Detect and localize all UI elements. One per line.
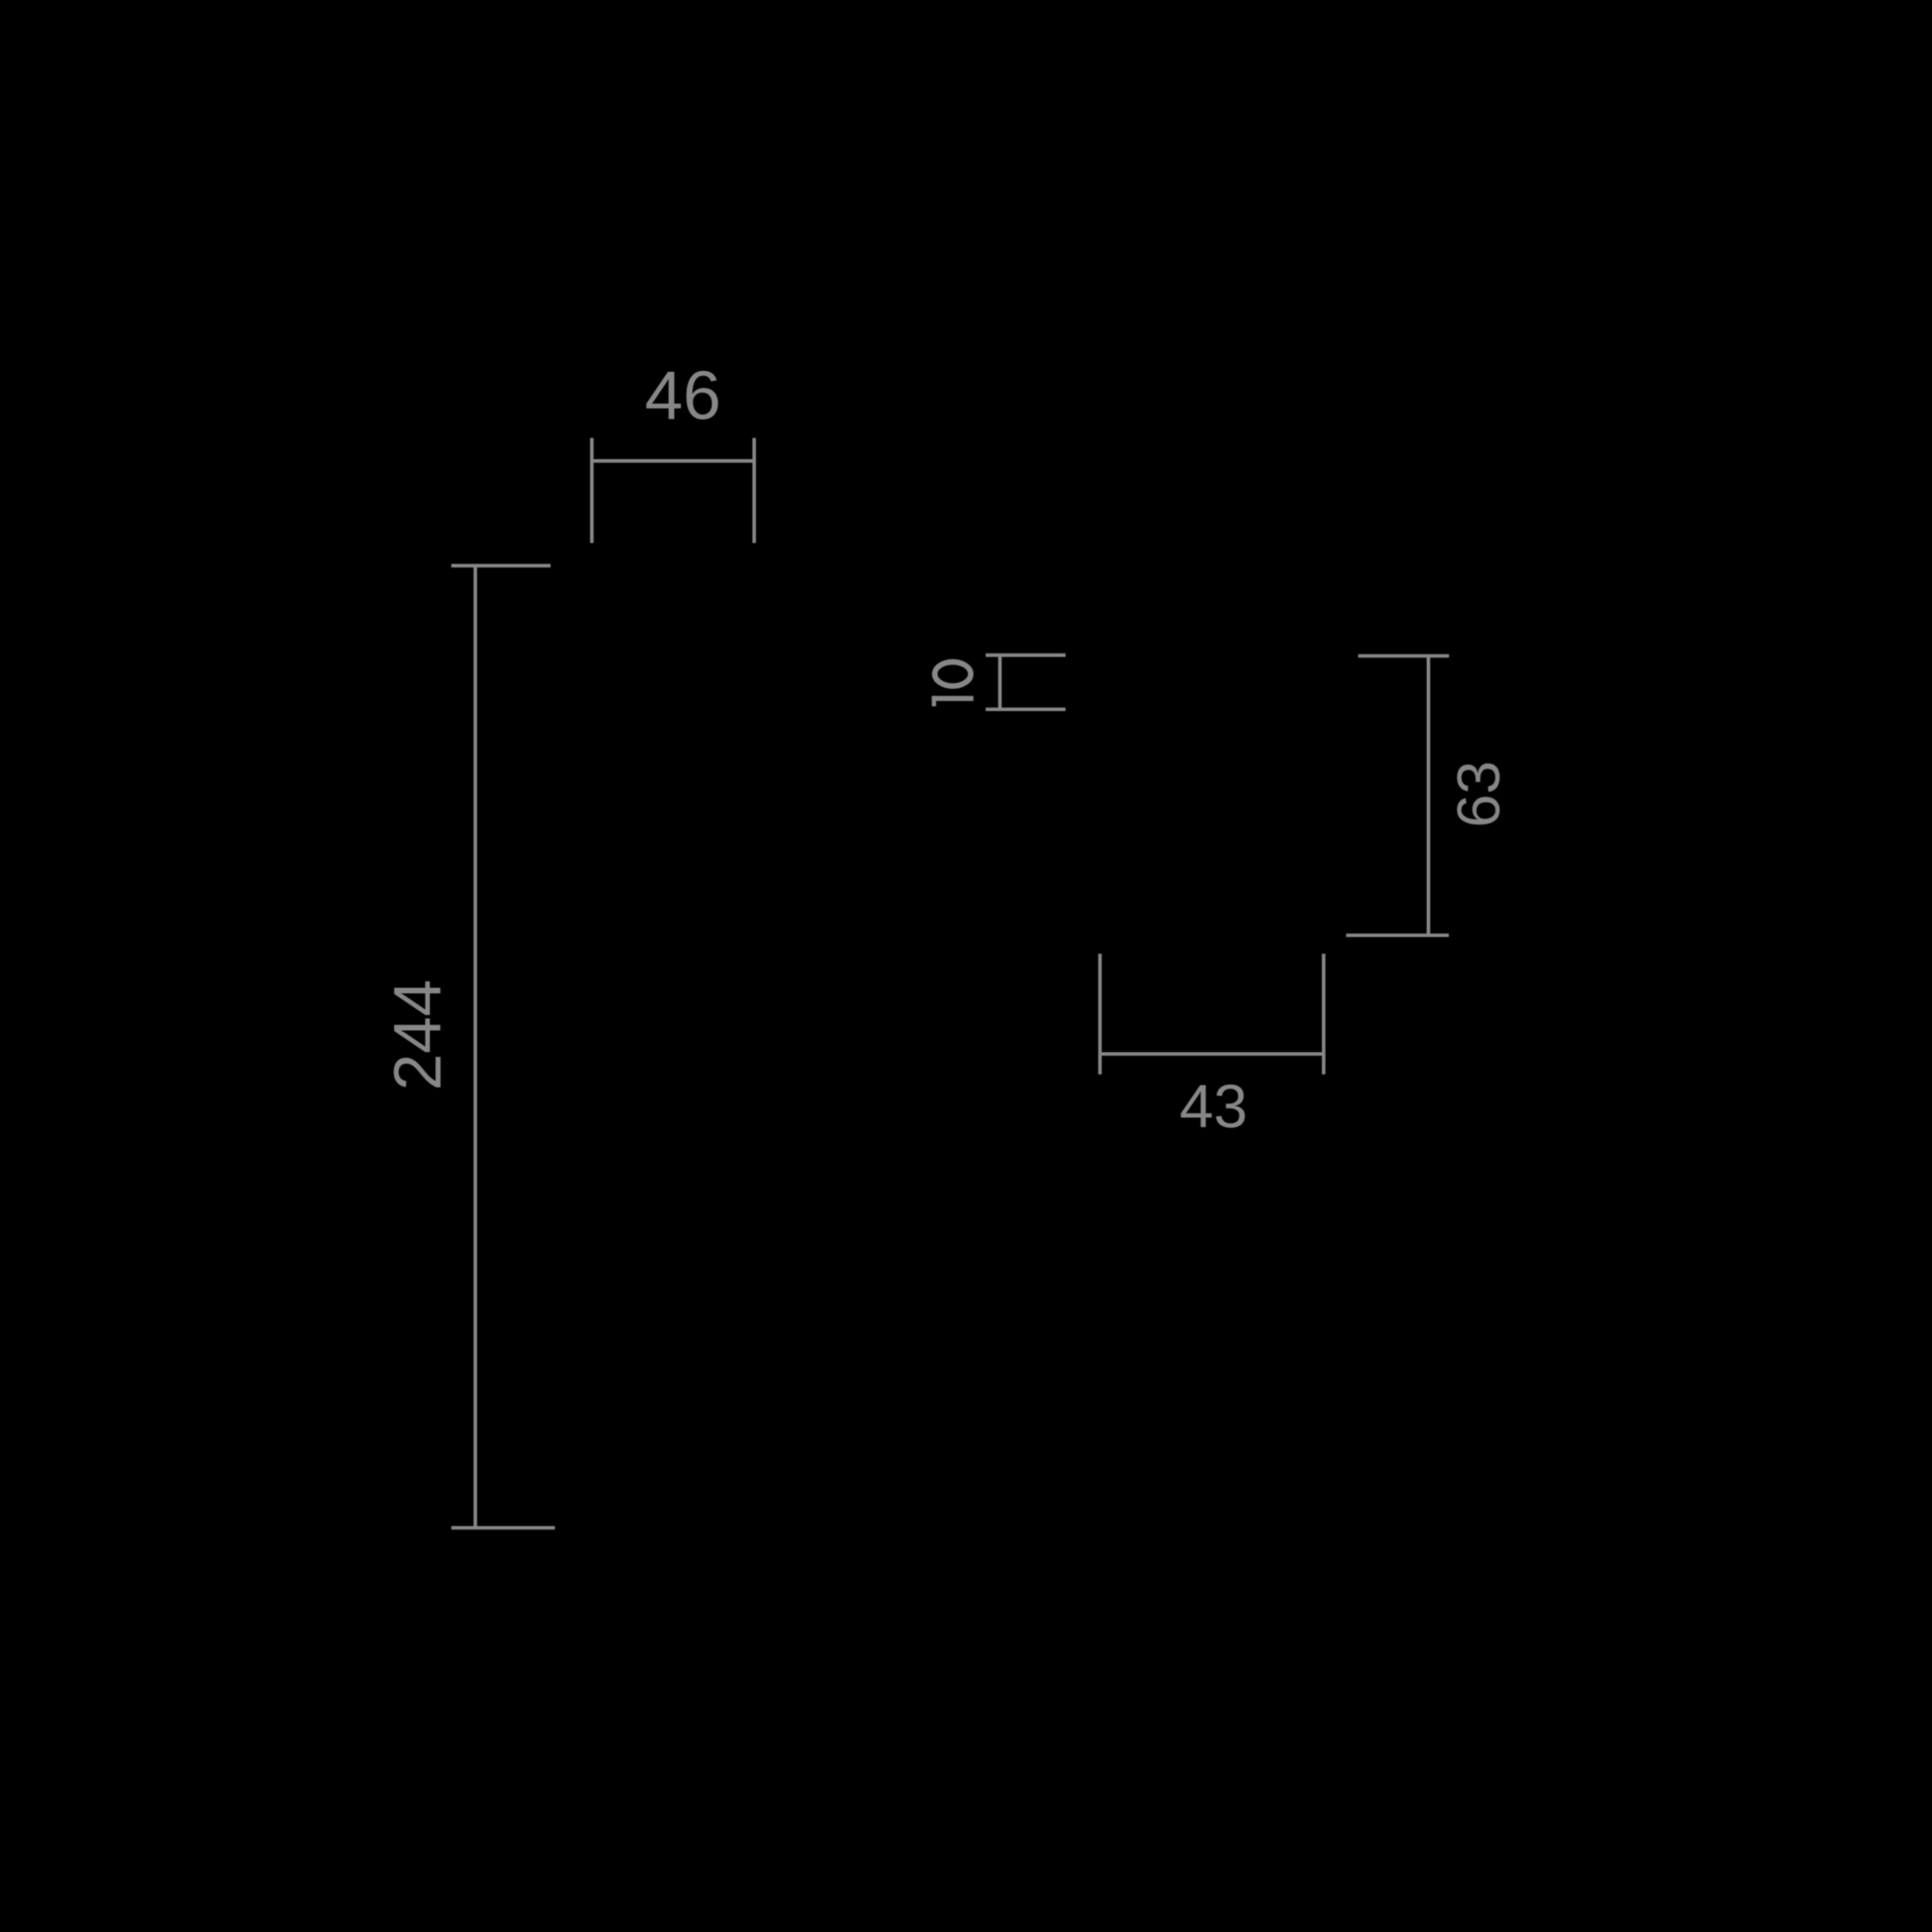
dimension 43: dimension line [1100, 1052, 1324, 1056]
dimension 46: right extension tick [753, 438, 756, 542]
dimension 10: dimension line [998, 655, 1002, 709]
dimension 244: bottom extension tick [451, 1526, 555, 1530]
dimension 63: bottom extension tick [1346, 934, 1449, 937]
dimension 46: dimension line [591, 459, 756, 463]
svg-text:43: 43 [1179, 1072, 1247, 1140]
svg-text:244: 244 [381, 979, 455, 1090]
svg-text:63: 63 [1444, 761, 1512, 828]
dimension 10: value label (rotated), digit 1 drawn as shapes [932, 696, 973, 706]
dimension 10: top extension tick [985, 654, 1065, 657]
svg-text:46: 46 [644, 357, 720, 434]
dimension 10: bottom extension tick [985, 707, 1065, 711]
dimension 43: right extension tick [1322, 954, 1326, 1074]
dimension 63: dimension line [1427, 656, 1430, 935]
dimension 63: top extension tick [1358, 655, 1449, 658]
dimension 244: dimension line [474, 565, 477, 1528]
dimension 10: value label digit 0 [934, 662, 971, 686]
dimension 43: left extension tick [1099, 954, 1102, 1074]
dimension 244: top extension tick [451, 564, 551, 567]
dimension 46: left extension tick [591, 438, 594, 542]
